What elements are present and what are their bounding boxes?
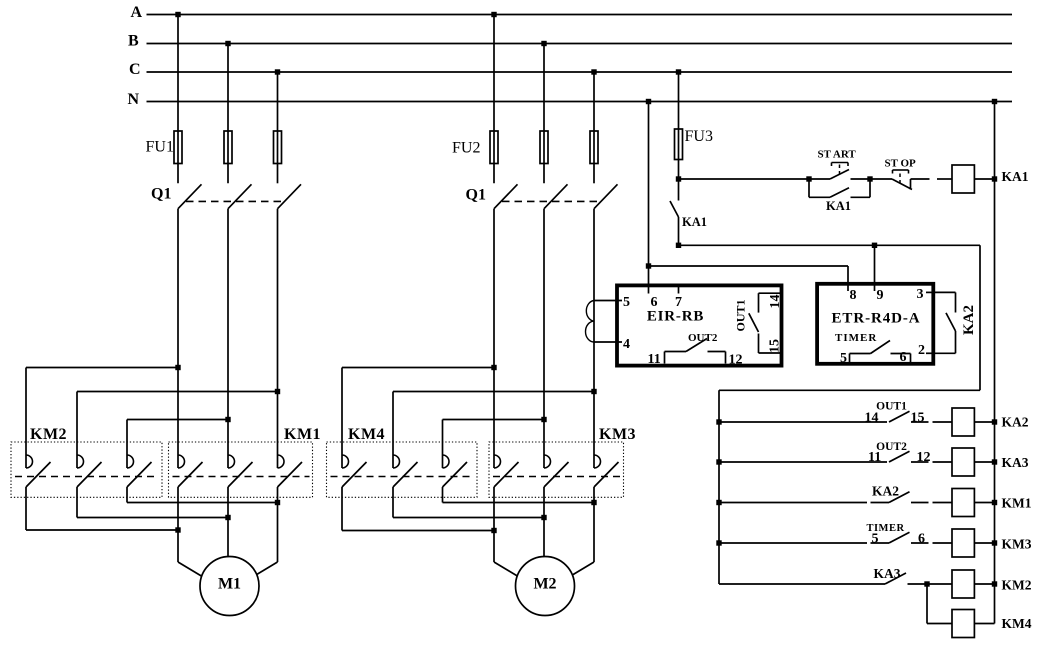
contactor KM2 main contact pole 2 bbox=[77, 455, 84, 468]
contactor coil KM2 bbox=[952, 570, 974, 598]
wire: phase C drop motor2 (x=594) bbox=[593, 72, 595, 183]
junction on bus (N1) bbox=[646, 99, 651, 104]
ETR pin 2 stub bbox=[926, 352, 935, 354]
ETR TIMER contact bbox=[849, 354, 851, 364]
junction KM4 return/phase3 bbox=[591, 500, 596, 505]
svg-text:ST ART: ST ART bbox=[818, 149, 857, 161]
wire: KA1 seal-in branch bbox=[808, 179, 810, 197]
svg-text:KM3: KM3 bbox=[599, 426, 636, 443]
junction phaseC/KM4 tap bbox=[591, 389, 596, 394]
EIR-RB OUT1 contact bbox=[759, 292, 781, 294]
breaker Q1a pole 3 blade bbox=[278, 184, 302, 208]
junction node KA1/feeder bbox=[676, 243, 681, 248]
rung3 wire + contact KA2 bbox=[719, 502, 867, 504]
svg-text:5: 5 bbox=[623, 295, 630, 310]
junction rung4 right rail bbox=[992, 540, 997, 545]
contactor KM1 main contact pole 2 bbox=[228, 455, 235, 468]
EIR-RB pin 6 stub bbox=[648, 285, 650, 294]
junction START left node bbox=[806, 176, 811, 181]
breaker Q1b pole 1 blade bbox=[494, 184, 518, 208]
junction phaseA/KM4 tap bbox=[491, 365, 496, 370]
junction rung5 branch node bbox=[924, 581, 929, 586]
wire: branch to ETR pin 8 bbox=[649, 265, 849, 267]
pushbutton START head bbox=[832, 162, 849, 164]
junction phaseB/KM4 tap bbox=[541, 417, 546, 422]
wire: bus B bbox=[147, 43, 1013, 45]
junction on bus (A2) bbox=[491, 12, 496, 17]
junction on bus (C2) bbox=[591, 69, 596, 74]
wire: START to STOP bbox=[851, 178, 893, 180]
contact KA1 NO (vertical) upper wire bbox=[678, 179, 680, 201]
svg-text:9: 9 bbox=[877, 288, 884, 303]
contactor KM4 main contact pole 2 bbox=[393, 455, 400, 468]
svg-text:N: N bbox=[128, 91, 140, 108]
junction rung5 right rail bbox=[992, 581, 997, 586]
junction rung4 left rail bbox=[716, 540, 721, 545]
svg-text:14: 14 bbox=[768, 295, 783, 309]
svg-text:KM2: KM2 bbox=[1002, 578, 1032, 593]
wire: phase B drop motor1 (x=228) bbox=[227, 44, 229, 184]
contact KA1 NO (vertical) blade bbox=[670, 201, 679, 217]
pushbutton START NO blade bbox=[830, 170, 849, 180]
svg-text:8: 8 bbox=[850, 288, 857, 303]
junction phaseC/KM2 tap bbox=[275, 389, 280, 394]
svg-text:12: 12 bbox=[917, 450, 931, 465]
junction feeder / pin9 drop bbox=[872, 243, 877, 248]
fuse FU1 pole 2 bbox=[224, 131, 232, 164]
svg-text:11: 11 bbox=[868, 450, 881, 465]
svg-text:15: 15 bbox=[768, 339, 783, 353]
svg-text:2: 2 bbox=[918, 343, 925, 358]
svg-text:3: 3 bbox=[917, 287, 924, 302]
wire: KM2 pole3 top bypass from phase B bbox=[127, 419, 228, 421]
wire: M2 feed conductors bbox=[493, 487, 495, 562]
svg-text:4: 4 bbox=[623, 337, 630, 352]
fuse FU1 pole 3 bbox=[274, 131, 282, 164]
wire: KA2 contact to ETR pin2 bbox=[955, 331, 957, 353]
contactor KM2 main contact pole 3 bbox=[127, 455, 134, 468]
wire: KM4 pole1 bottom return bbox=[341, 487, 343, 531]
pushbutton STOP head bbox=[893, 169, 909, 171]
svg-text:Q1: Q1 bbox=[151, 186, 171, 203]
svg-text:KM1: KM1 bbox=[284, 426, 321, 443]
fuse FU1 pole 1 bbox=[174, 131, 182, 164]
breaker Q1b linkage (dashed) bbox=[502, 200, 601, 202]
contactor coil KM4 bbox=[952, 610, 974, 638]
breaker Q1a pole 2 blade bbox=[228, 184, 252, 208]
EIR-RB pin 4 lead bbox=[594, 341, 622, 343]
rung2 wire + contact OUT2 (11-12) bbox=[719, 461, 887, 463]
wire: KM4 pole2 bottom return bbox=[392, 487, 394, 518]
svg-text:KA2: KA2 bbox=[872, 484, 899, 499]
junction on bus (B2) bbox=[541, 41, 546, 46]
svg-text:5: 5 bbox=[840, 351, 847, 366]
current sensor coil on phase C bbox=[586, 301, 595, 343]
contactor KM4 linkage (dashed) bbox=[331, 476, 475, 478]
wire: KM2 pole2 top bypass from phase C bbox=[77, 391, 278, 393]
svg-text:5: 5 bbox=[872, 532, 879, 547]
junction rung3 left rail bbox=[716, 500, 721, 505]
svg-text:M2: M2 bbox=[533, 576, 556, 593]
junction rung1 left rail bbox=[716, 419, 721, 424]
svg-text:B: B bbox=[128, 33, 139, 50]
fuse FU2 pole 2 bbox=[540, 131, 548, 164]
svg-text:ETR-R4D-A: ETR-R4D-A bbox=[832, 311, 921, 327]
svg-text:11: 11 bbox=[648, 352, 661, 367]
wire: ETR pin3 to KA2 contact bbox=[935, 291, 956, 293]
EIR-RB pin 5 lead bbox=[594, 300, 622, 302]
pushbutton START actuator (dashed) bbox=[839, 164, 841, 175]
svg-text:KA3: KA3 bbox=[874, 566, 901, 581]
wire: control rung to START bbox=[679, 178, 831, 180]
contactor coil KM1 bbox=[952, 489, 974, 517]
pushbutton STOP actuator (dashed) bbox=[899, 172, 901, 184]
contactor KM3 main contact pole 2 bbox=[544, 455, 551, 468]
wire: ladder left rail bbox=[718, 390, 720, 584]
junction phaseB/KM2 tap bbox=[225, 417, 230, 422]
contactor KM1 dotted enclosure bbox=[169, 442, 313, 497]
EIR-RB OUT2 contact bbox=[664, 352, 666, 364]
svg-text:KA2: KA2 bbox=[1002, 415, 1029, 430]
svg-text:Q1: Q1 bbox=[466, 187, 486, 204]
contactor KM1 main contact pole 3 bbox=[278, 455, 285, 468]
relay module EIR-RB outline bbox=[617, 285, 782, 365]
junction coil KA1 / right rail bbox=[992, 176, 997, 181]
svg-text:FU3: FU3 bbox=[685, 128, 713, 145]
svg-text:TIMER: TIMER bbox=[835, 332, 877, 344]
svg-text:12: 12 bbox=[729, 353, 743, 368]
junction KM2 return/phase2 bbox=[225, 515, 230, 520]
timer module ETR-R4D-A outline bbox=[817, 284, 933, 364]
wire: KM2 pole3 bottom return bbox=[126, 487, 128, 503]
rung5 wire + contact KA3 bbox=[719, 583, 885, 585]
pushbutton STOP NC blade bbox=[892, 179, 912, 190]
contactor coil KM3 bbox=[952, 529, 974, 557]
relay coil KA2 bbox=[952, 408, 974, 436]
wire: M1 feed conductors bbox=[177, 487, 179, 562]
breaker Q1b pole 3 blade bbox=[594, 184, 618, 208]
wire: phase A drop motor1 (x=178) bbox=[177, 15, 179, 184]
svg-text:C: C bbox=[129, 61, 141, 78]
wire: KM4 pole3 top bypass from phase B bbox=[443, 419, 545, 421]
rung1 wire + contact OUT1 (14-15) bbox=[719, 421, 887, 423]
wire: coil KA1 to right rail bbox=[974, 178, 994, 180]
contact KA1 NO (vertical) lower wire bbox=[678, 217, 680, 245]
junction rung1 right rail bbox=[992, 419, 997, 424]
svg-text:7: 7 bbox=[675, 295, 682, 310]
contactor KM3 linkage (dashed) bbox=[493, 476, 621, 478]
contactor KM3 main contact pole 1 bbox=[494, 455, 501, 468]
junction START right node bbox=[867, 176, 872, 181]
motor M2 bbox=[516, 557, 575, 616]
fuse FU3 bbox=[675, 129, 683, 160]
wire: KM2 pole1 bottom return bbox=[25, 487, 27, 530]
svg-text:14: 14 bbox=[865, 411, 879, 426]
svg-text:M1: M1 bbox=[218, 576, 241, 593]
fuse FU2 pole 1 bbox=[490, 131, 498, 164]
svg-text:EIR-RB: EIR-RB bbox=[647, 309, 704, 325]
svg-text:6: 6 bbox=[900, 350, 907, 365]
svg-text:OUT1: OUT1 bbox=[734, 299, 748, 331]
junction KM2 return/phase1 bbox=[175, 527, 180, 532]
wire: phase A drop motor2 (x=494) bbox=[493, 15, 495, 184]
svg-text:KM4: KM4 bbox=[1002, 616, 1032, 631]
junction FU3 output node bbox=[676, 176, 681, 181]
wire: FU3 drop from bus C bbox=[678, 72, 680, 179]
contactor KM2 linkage (dashed) bbox=[15, 476, 159, 478]
fuse FU2 pole 3 bbox=[590, 131, 598, 164]
junction rung2 right rail bbox=[992, 459, 997, 464]
wire: right rail from bus N bbox=[994, 102, 996, 624]
breaker Q1a pole 1 blade bbox=[178, 184, 202, 208]
junction on bus (N2) bbox=[992, 99, 997, 104]
wire: N drop to EIR pin 6 bbox=[648, 102, 650, 284]
junction KM4 return/phase2 bbox=[541, 515, 546, 520]
contactor KM1 linkage (dashed) bbox=[173, 476, 310, 478]
contactor KM2 dotted enclosure bbox=[11, 442, 162, 497]
svg-text:15: 15 bbox=[911, 411, 925, 426]
wire: KM4 pole3 bottom return bbox=[442, 487, 444, 503]
junction on bus (B1) bbox=[225, 41, 230, 46]
contactor KM4 main contact pole 3 bbox=[443, 455, 450, 468]
contactor KM2 main contact pole 1 bbox=[26, 455, 33, 468]
contact KA1 seal-in NO blade bbox=[830, 188, 849, 198]
contactor KM1 main contact pole 1 bbox=[178, 455, 185, 468]
svg-text:6: 6 bbox=[651, 295, 658, 310]
wire: feeder right drop bbox=[979, 245, 981, 390]
svg-text:KM4: KM4 bbox=[348, 426, 385, 443]
junction KM4 return/phase1 bbox=[491, 528, 496, 533]
rung4 wire + contact TIMER (5-6) bbox=[719, 542, 867, 544]
contactor KM3 dotted enclosure bbox=[489, 442, 624, 497]
svg-text:A: A bbox=[131, 4, 143, 21]
junction rung2 left rail bbox=[716, 459, 721, 464]
svg-text:FU1: FU1 bbox=[146, 139, 174, 156]
junction rung3 right rail bbox=[992, 500, 997, 505]
EIR-RB pin 7 stub bbox=[678, 285, 680, 294]
wire: phase B drop motor2 (x=544) bbox=[543, 44, 545, 184]
junction KM2 return/phase3 bbox=[275, 500, 280, 505]
wire: KM4 pole2 top bypass from phase C bbox=[393, 391, 594, 393]
wire: phase C drop motor1 (x=277.5) bbox=[277, 72, 279, 183]
wire: KM2 pole2 bottom return bbox=[76, 487, 78, 518]
svg-text:OUT1: OUT1 bbox=[876, 401, 907, 413]
junction phaseA/KM2 tap bbox=[175, 365, 180, 370]
wire: KM4 coil to right rail bbox=[974, 623, 994, 625]
breaker Q1b pole 2 blade bbox=[544, 184, 568, 208]
ETR pin 3 stub bbox=[926, 291, 935, 293]
breaker Q1a linkage (dashed) bbox=[186, 200, 285, 202]
junction on bus (A1) bbox=[175, 12, 180, 17]
wire: KM4 pole1 top bypass from phase A bbox=[342, 367, 494, 369]
motor M1 bbox=[200, 557, 259, 616]
wire: bus C bbox=[147, 71, 1013, 73]
svg-text:KA3: KA3 bbox=[1002, 455, 1029, 470]
wire: ladder top feed bbox=[719, 389, 980, 391]
contact KA2 (vertical) blade bbox=[946, 313, 956, 331]
ETR pin 9 stub bbox=[874, 284, 876, 292]
svg-text:KM3: KM3 bbox=[1002, 537, 1032, 552]
junction on bus (C1) bbox=[275, 69, 280, 74]
ETR pin 8 stub bbox=[847, 284, 849, 292]
wire: feeder horizontal y=245 bbox=[679, 244, 981, 246]
relay coil KA3 bbox=[952, 448, 974, 476]
contactor KM4 main contact pole 1 bbox=[342, 455, 349, 468]
svg-text:KM2: KM2 bbox=[30, 426, 67, 443]
wire: branch to KM4 coil bbox=[926, 584, 928, 624]
wire: bus A bbox=[147, 14, 1013, 16]
junction N-drop / pin8 branch bbox=[646, 263, 651, 268]
svg-text:FU2: FU2 bbox=[452, 140, 480, 157]
junction on bus (C3) bbox=[676, 69, 681, 74]
wire: bus N bbox=[147, 101, 1013, 103]
svg-text:KA2: KA2 bbox=[961, 305, 977, 335]
contactor KM3 main contact pole 3 bbox=[594, 455, 601, 468]
svg-text:KA1: KA1 bbox=[682, 215, 707, 229]
contactor KM4 dotted enclosure bbox=[327, 442, 478, 497]
wire: KM2 pole1 top bypass from phase A bbox=[26, 367, 178, 369]
svg-text:KM1: KM1 bbox=[1002, 496, 1032, 511]
wire: STOP to coil KA1 bbox=[911, 178, 930, 180]
svg-text:ST OP: ST OP bbox=[885, 158, 917, 170]
svg-text:KA1: KA1 bbox=[1002, 169, 1029, 184]
pushbutton STOP fixed bar bbox=[910, 179, 912, 190]
svg-text:KA1: KA1 bbox=[826, 199, 851, 213]
svg-text:6: 6 bbox=[918, 532, 925, 547]
relay coil KA1 bbox=[952, 165, 974, 193]
wire: feeder to ETR pin 9 bbox=[874, 245, 876, 282]
